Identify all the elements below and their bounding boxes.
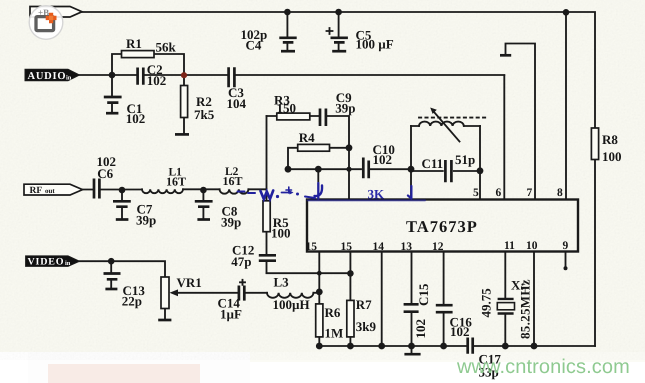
svg-text:39p: 39p [136, 213, 156, 228]
svg-text:www.cntronics.com: www.cntronics.com [456, 356, 630, 378]
svg-text:56k: 56k [156, 40, 177, 55]
svg-text:47p: 47p [231, 254, 251, 269]
svg-text:6: 6 [496, 187, 502, 199]
svg-text:1µF: 1µF [220, 306, 242, 321]
svg-text:51p: 51p [455, 152, 475, 167]
svg-text:102: 102 [147, 73, 167, 88]
svg-text:14: 14 [373, 241, 385, 253]
svg-text:3k9: 3k9 [356, 319, 377, 334]
svg-text:C6: C6 [97, 166, 113, 181]
svg-text:7k5: 7k5 [194, 107, 215, 122]
svg-text:TA7673P: TA7673P [406, 217, 478, 236]
svg-text:12: 12 [432, 241, 444, 253]
svg-text:RF: RF [30, 186, 43, 196]
svg-text:15: 15 [306, 241, 318, 253]
svg-text:R8: R8 [602, 132, 618, 147]
svg-text:8: 8 [557, 187, 563, 199]
svg-text:3K: 3K [368, 187, 386, 202]
svg-text:AUDIO: AUDIO [28, 71, 66, 82]
svg-text:15: 15 [341, 241, 353, 253]
svg-text:C11: C11 [422, 156, 444, 171]
svg-text:102: 102 [373, 152, 393, 167]
svg-text:C15: C15 [416, 283, 431, 306]
svg-text:10: 10 [526, 240, 538, 252]
svg-text:39p: 39p [335, 101, 355, 116]
svg-text:VIDEO: VIDEO [28, 257, 64, 268]
svg-text:22p: 22p [122, 294, 142, 309]
svg-text:100: 100 [602, 149, 622, 164]
svg-text:104: 104 [227, 96, 247, 111]
svg-text:1M: 1M [325, 326, 344, 341]
svg-text:5: 5 [473, 187, 479, 199]
svg-text:49.75: 49.75 [479, 288, 494, 318]
svg-text:100µH: 100µH [273, 297, 310, 312]
svg-text:R7: R7 [356, 297, 372, 312]
svg-text:out: out [45, 187, 55, 195]
svg-text:7: 7 [527, 187, 533, 199]
svg-text:102: 102 [450, 324, 470, 339]
svg-text:39p: 39p [221, 215, 241, 230]
svg-text:9: 9 [563, 240, 569, 252]
svg-text:VR1: VR1 [177, 275, 202, 290]
svg-text:102: 102 [413, 319, 428, 339]
svg-text:R6: R6 [325, 305, 341, 320]
svg-text:R1: R1 [126, 36, 142, 51]
svg-text:16T: 16T [223, 174, 243, 188]
svg-text:L3: L3 [274, 274, 290, 289]
svg-text:150: 150 [277, 101, 297, 116]
svg-text:13: 13 [401, 241, 413, 253]
svg-text:in: in [65, 260, 71, 267]
svg-text:C4: C4 [246, 37, 262, 52]
svg-text:R4: R4 [299, 130, 315, 145]
svg-text:100 µF: 100 µF [356, 37, 394, 52]
svg-text:16T: 16T [166, 175, 186, 189]
svg-text:in: in [66, 75, 72, 82]
svg-text:85.25MHz: 85.25MHz [518, 279, 533, 339]
svg-text:11: 11 [504, 240, 515, 252]
svg-text:102: 102 [126, 111, 146, 126]
svg-text:100: 100 [271, 226, 291, 241]
